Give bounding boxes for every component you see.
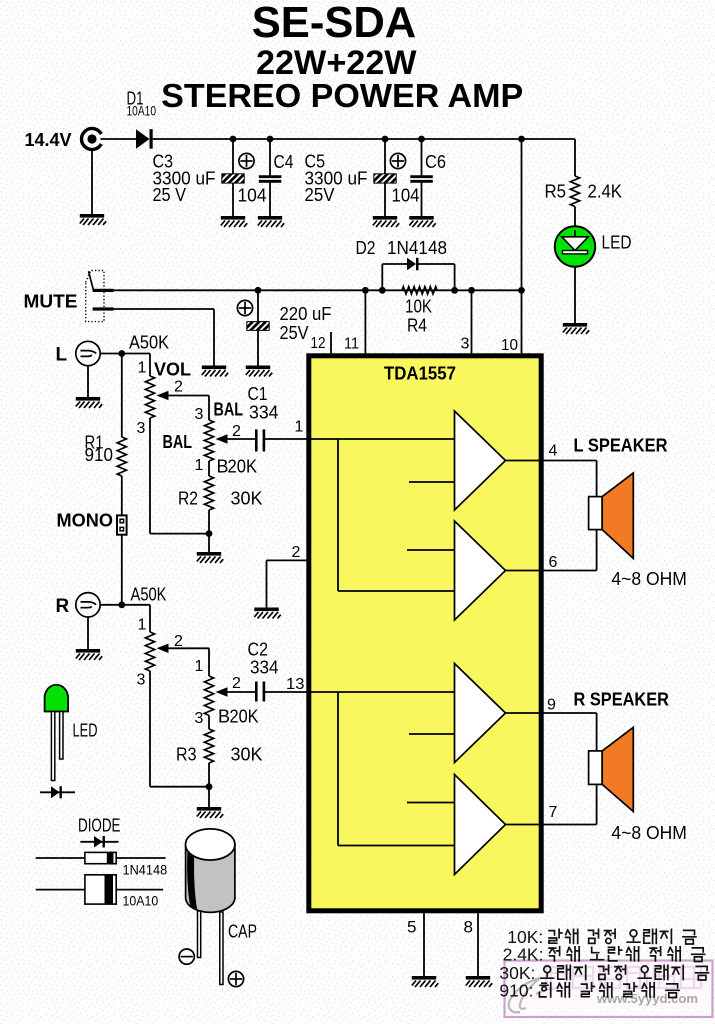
svg-text:1: 1 bbox=[195, 658, 204, 675]
svg-text:1: 1 bbox=[195, 457, 204, 474]
wire D2 to node bbox=[419, 263, 455, 265]
wire mute line bbox=[114, 289, 522, 291]
wire D1 to C3 node bbox=[153, 138, 233, 140]
svg-text:R4: R4 bbox=[407, 316, 427, 336]
ground L jack bbox=[76, 397, 102, 408]
plus mark 220uF bbox=[237, 300, 252, 315]
wire node to ground bbox=[208, 787, 210, 807]
plus mark CAP bbox=[228, 971, 243, 986]
ground at 14.4V jack bbox=[80, 214, 106, 225]
wire mute lower bbox=[114, 308, 214, 310]
connector R jack bbox=[76, 593, 100, 617]
wire C2 to pin13 bbox=[264, 691, 311, 693]
wire pin 10 to rail bbox=[521, 139, 523, 353]
svg-text:R5: R5 bbox=[545, 182, 567, 202]
resistor R5 bbox=[570, 176, 579, 207]
svg-text:SE-SDA: SE-SDA bbox=[252, 0, 417, 47]
wire jack ground lead bbox=[91, 151, 93, 214]
capacitor C4 plate1 bbox=[259, 175, 282, 178]
svg-text:20K: 20K bbox=[228, 457, 258, 477]
svg-text:10K: 10K bbox=[405, 297, 432, 317]
wire R5 to LED bbox=[574, 207, 576, 228]
svg-text:3: 3 bbox=[195, 406, 204, 423]
capacitor CAP stripe bbox=[187, 850, 197, 911]
svg-text:R: R bbox=[56, 596, 70, 617]
ground pin 5 bbox=[412, 976, 438, 987]
capacitor C2 plate2 bbox=[263, 682, 266, 702]
svg-text:4~8 OHM: 4~8 OHM bbox=[611, 569, 687, 589]
connector L jack bbox=[76, 341, 100, 365]
svg-text:2.4K: 2.4K bbox=[588, 182, 623, 202]
node L/mono bbox=[118, 350, 125, 357]
svg-text:12: 12 bbox=[311, 335, 326, 352]
wire wiper to BAL R bbox=[208, 648, 210, 676]
svg-text:2: 2 bbox=[232, 675, 241, 692]
potentiometer BAL B20K R bbox=[204, 676, 213, 715]
LED D3 triangle bbox=[562, 237, 588, 251]
svg-text:B: B bbox=[218, 707, 230, 727]
wire D2 left leg bbox=[381, 264, 383, 290]
wire pin 3 bbox=[471, 290, 473, 353]
wire D2 right leg bbox=[454, 264, 456, 290]
wire rail to R5 bbox=[574, 139, 576, 176]
wire pin 8 to ground bbox=[477, 913, 479, 976]
wire R3 to node bbox=[208, 763, 210, 787]
diode D2 bbox=[407, 258, 416, 270]
svg-text:TDA1557: TDA1557 bbox=[384, 364, 456, 384]
wire jack to D1 bbox=[101, 138, 137, 140]
speaker R magnet bbox=[589, 751, 603, 785]
capacitor C1 plate1 bbox=[255, 429, 258, 451]
potentiometer VOL A50K bbox=[145, 376, 154, 418]
svg-text:R3: R3 bbox=[176, 745, 197, 765]
svg-text:6: 6 bbox=[549, 554, 558, 571]
wire pin 2 bbox=[267, 559, 307, 561]
capacitor CAP body bbox=[186, 845, 235, 913]
svg-text:25V: 25V bbox=[305, 185, 335, 205]
connector J1 14.4V bbox=[81, 129, 101, 150]
node pin10/mute bbox=[518, 287, 525, 294]
jumper pin a bbox=[119, 519, 124, 524]
svg-text:1: 1 bbox=[138, 360, 147, 377]
watermark swirl bbox=[509, 978, 566, 1012]
wire C1 to pin1 bbox=[264, 438, 311, 440]
svg-text:30K: 30K bbox=[231, 489, 263, 509]
wire BAL to R2 bbox=[208, 461, 210, 476]
svg-text:LED: LED bbox=[73, 721, 98, 741]
wire C6 top lead bbox=[421, 139, 423, 176]
svg-text:1N4148: 1N4148 bbox=[123, 862, 168, 878]
LED leg long bbox=[51, 712, 54, 781]
ground 220uF bbox=[246, 366, 272, 377]
ground L pot bbox=[197, 552, 223, 563]
svg-text:334: 334 bbox=[249, 403, 279, 423]
svg-text:VOL: VOL bbox=[154, 360, 191, 380]
svg-text:2: 2 bbox=[232, 423, 241, 440]
svg-text:1: 1 bbox=[138, 617, 147, 634]
wire amp1-amp2 branch bbox=[337, 439, 339, 591]
capacitor C5 bbox=[374, 174, 396, 183]
CAP leg plus bbox=[220, 912, 223, 985]
wiper BAL R bbox=[216, 687, 228, 696]
switch SW1 lever bbox=[89, 271, 94, 290]
wire L jack ground lead bbox=[87, 366, 89, 397]
wire 1N4148 leads bbox=[36, 857, 166, 859]
jumper MONO body bbox=[117, 515, 127, 534]
jumper pin b bbox=[119, 527, 124, 532]
svg-text:30K: 30K bbox=[231, 745, 263, 765]
op-amp triangle out y=713 bbox=[455, 664, 506, 763]
wire amp1 stub bbox=[409, 481, 455, 483]
svg-text:3: 3 bbox=[461, 336, 470, 353]
wire pin6 to L speaker bbox=[544, 570, 597, 572]
wire R speaker top bbox=[596, 713, 598, 751]
resistor R4 bbox=[402, 287, 437, 295]
wire L speaker bottom bbox=[596, 530, 598, 571]
wiper BAL L bbox=[216, 434, 228, 443]
svg-text:10: 10 bbox=[501, 337, 518, 354]
wire R1 to jumper bbox=[121, 476, 123, 515]
svg-text:8: 8 bbox=[464, 918, 473, 937]
diode LED polarity symbol bbox=[51, 786, 60, 798]
connector R jack tip bbox=[81, 602, 97, 608]
watermark box bbox=[505, 961, 713, 1018]
svg-text:L: L bbox=[56, 345, 68, 366]
svg-text:22W+22W: 22W+22W bbox=[256, 44, 417, 82]
node pin3 bbox=[468, 287, 475, 294]
wire C6 bottom lead bbox=[421, 183, 423, 217]
svg-text:10A10: 10A10 bbox=[123, 893, 159, 909]
wire C4 top lead bbox=[269, 139, 271, 176]
wire pin13 input to amp3 bbox=[311, 691, 455, 693]
node pin11 bbox=[362, 287, 369, 294]
wire pin 5 to ground bbox=[423, 913, 425, 976]
wire C5 top lead bbox=[384, 139, 386, 174]
resistor R2 bbox=[204, 476, 213, 510]
svg-text:104: 104 bbox=[392, 186, 420, 206]
svg-text:13: 13 bbox=[286, 676, 305, 693]
wire R speaker bottom bbox=[596, 784, 598, 824]
capacitor C4 plate2 bbox=[259, 180, 282, 183]
wire pin9 to R speaker bbox=[544, 712, 597, 714]
wire pin 11 bbox=[364, 290, 366, 353]
capacitor C6 plate2 bbox=[410, 180, 433, 183]
op-amp triangle out y=570.5 bbox=[455, 521, 506, 620]
ground mute bbox=[202, 366, 228, 377]
diode 10A10 body bbox=[85, 875, 116, 904]
wire jumper to R node bbox=[121, 535, 123, 605]
ground pin 2 bbox=[254, 608, 280, 619]
svg-text:910:: 910: bbox=[499, 981, 533, 1001]
svg-text:2: 2 bbox=[174, 633, 183, 650]
wire C4 bottom lead bbox=[269, 183, 271, 217]
wire pin1 input to amp1 bbox=[311, 438, 455, 440]
wire pot R pin3 down bbox=[149, 671, 151, 787]
wire R2 to node bbox=[208, 510, 210, 534]
watermark cjk marks bbox=[546, 967, 566, 988]
LED D3 cathode bar bbox=[563, 251, 588, 254]
op-amp triangle out y=460.5 bbox=[455, 411, 506, 510]
svg-text:9: 9 bbox=[547, 697, 556, 714]
diode 1N4148 band bbox=[107, 852, 114, 863]
svg-text:14.4V: 14.4V bbox=[25, 130, 72, 150]
wire to D2 bbox=[382, 263, 407, 265]
svg-text:1: 1 bbox=[295, 419, 304, 436]
svg-text:220 uF: 220 uF bbox=[280, 304, 332, 324]
op-amp U1 TDA1557 body bbox=[309, 356, 541, 911]
wire amp2 out pin6 bbox=[506, 570, 544, 572]
plus mark C5 bbox=[390, 153, 405, 168]
wire amp2 stub bbox=[407, 549, 455, 551]
wire BAL R to R3 bbox=[208, 715, 210, 729]
wire 220uF top lead bbox=[257, 290, 259, 321]
resistor R1 bbox=[117, 437, 126, 476]
svg-text:3: 3 bbox=[195, 710, 204, 727]
CAP leg minus bbox=[198, 911, 201, 958]
wire C3 top lead bbox=[232, 139, 234, 174]
wire top supply rail bbox=[233, 138, 575, 140]
node R2/VOL3 bbox=[206, 530, 213, 537]
wire branch to amp4 bbox=[338, 845, 455, 847]
wire to VOL pot bbox=[149, 354, 151, 377]
ground R pot bbox=[197, 807, 223, 818]
svg-text:C1: C1 bbox=[248, 384, 268, 404]
LED D3 body bbox=[555, 226, 595, 266]
op-amp triangle out y=824.5 bbox=[455, 775, 506, 875]
svg-text:4: 4 bbox=[549, 443, 558, 460]
svg-text:R SPEAKER: R SPEAKER bbox=[574, 690, 670, 710]
svg-text:C2: C2 bbox=[248, 640, 269, 660]
LED leg short bbox=[60, 712, 63, 760]
svg-text:4~8 OHM: 4~8 OHM bbox=[611, 823, 687, 843]
minus mark CAP bbox=[179, 949, 194, 964]
node D2 left bbox=[379, 287, 386, 294]
capacitor C2 plate1 bbox=[255, 682, 258, 702]
svg-text:DIODE: DIODE bbox=[78, 816, 121, 836]
svg-text:104: 104 bbox=[238, 186, 267, 206]
wire pin 12 stub bbox=[330, 332, 332, 353]
node R3/pot3 bbox=[206, 783, 213, 790]
plus mark C3 bbox=[239, 153, 254, 168]
ground R jack bbox=[76, 649, 102, 660]
ground C3 bbox=[221, 216, 247, 227]
wire R jack ground lead bbox=[87, 617, 89, 649]
wire L jack out bbox=[100, 353, 150, 355]
wire L speaker top bbox=[596, 461, 598, 497]
svg-text:2: 2 bbox=[174, 379, 183, 396]
svg-text:7: 7 bbox=[549, 804, 558, 821]
speaker R cone bbox=[602, 727, 633, 811]
wire node to ground bbox=[208, 534, 210, 552]
wire 220uF bottom lead bbox=[257, 330, 259, 365]
wire VOL3 to node bbox=[150, 533, 209, 535]
svg-text:2: 2 bbox=[292, 544, 301, 561]
wire amp3-amp4 branch bbox=[337, 692, 339, 846]
wire amp4 out pin7 bbox=[506, 824, 544, 826]
wire branch to amp2 bbox=[338, 590, 455, 592]
capacitor 220uF bbox=[247, 322, 269, 331]
svg-text:BAL: BAL bbox=[163, 432, 193, 452]
switch SW1 bottom contact bbox=[93, 307, 114, 310]
capacitor C1 plate2 bbox=[263, 429, 266, 451]
ground pin 8 bbox=[466, 976, 492, 987]
svg-text:3: 3 bbox=[137, 672, 146, 689]
ground LED bbox=[563, 323, 589, 334]
node R/mono bbox=[118, 601, 125, 608]
wire mute lower to ground bbox=[213, 309, 215, 366]
node mute/220uF bbox=[255, 287, 262, 294]
svg-text:L SPEAKER: L SPEAKER bbox=[574, 436, 668, 456]
switch SW1 top contact bbox=[93, 289, 114, 292]
wire amp1 out pin4 bbox=[506, 460, 544, 462]
wire 10A10 leads bbox=[36, 889, 164, 891]
svg-text:A50K: A50K bbox=[131, 585, 167, 605]
wire amp3 stub bbox=[409, 733, 455, 735]
potentiometer A50K R bbox=[145, 632, 154, 671]
ground C5 bbox=[373, 216, 399, 227]
svg-text:A50K: A50K bbox=[129, 333, 169, 353]
resistor R3 bbox=[204, 729, 213, 763]
capacitor C6 plate1 bbox=[410, 175, 433, 178]
svg-text:2.4K:: 2.4K: bbox=[503, 945, 544, 965]
wire amp4 stub bbox=[407, 802, 455, 804]
wire mono link upper bbox=[121, 354, 123, 438]
diode symbol small bbox=[94, 836, 103, 848]
svg-text:C4: C4 bbox=[274, 152, 294, 172]
svg-text:STEREO POWER AMP: STEREO POWER AMP bbox=[161, 78, 523, 115]
svg-text:D2: D2 bbox=[356, 238, 376, 258]
svg-text:3: 3 bbox=[137, 420, 146, 437]
svg-text:11: 11 bbox=[344, 336, 359, 353]
svg-text:BAL: BAL bbox=[214, 400, 244, 420]
wiper pot R bbox=[157, 644, 169, 653]
capacitor CAP top bbox=[186, 829, 235, 860]
diode D1 bbox=[136, 129, 150, 149]
svg-text:334: 334 bbox=[250, 658, 279, 678]
speaker L cone bbox=[602, 473, 633, 558]
svg-text:LED: LED bbox=[602, 233, 632, 253]
wire amp3 out pin9 bbox=[506, 712, 544, 714]
wire to R pot bbox=[149, 605, 151, 632]
svg-text:25V: 25V bbox=[280, 323, 309, 343]
wire LED polarity bbox=[40, 791, 75, 793]
wire pot3 to node bbox=[150, 786, 209, 788]
wiper VOL bbox=[157, 391, 169, 400]
wire C3 bottom lead bbox=[232, 183, 234, 216]
wire pin7 to R speaker bbox=[544, 824, 597, 826]
svg-text:5: 5 bbox=[407, 918, 416, 937]
svg-text:910: 910 bbox=[85, 445, 114, 465]
node D2 right bbox=[451, 287, 458, 294]
svg-text:C6: C6 bbox=[425, 152, 446, 172]
svg-text:1N4148: 1N4148 bbox=[387, 238, 447, 258]
potentiometer BAL B20K L bbox=[204, 420, 213, 461]
diode 1N4148 body bbox=[85, 852, 116, 863]
diode 10A10 band bbox=[105, 875, 114, 904]
wire R jack out bbox=[100, 604, 150, 606]
ground C4 bbox=[258, 216, 284, 227]
wire VOL pin3 down bbox=[149, 418, 151, 534]
svg-text:R2: R2 bbox=[178, 489, 198, 509]
wire LED to ground bbox=[574, 267, 576, 323]
svg-text:20K: 20K bbox=[230, 707, 259, 727]
wire C5 bottom lead bbox=[384, 183, 386, 216]
svg-text:10A10: 10A10 bbox=[127, 104, 157, 119]
switch SW1 outline bbox=[86, 271, 104, 322]
svg-text:CAP: CAP bbox=[228, 922, 257, 942]
wire pin4 to L speaker bbox=[544, 460, 597, 462]
wire pin 2 down bbox=[266, 560, 268, 607]
wire VOL wiper to BAL bbox=[208, 396, 210, 421]
svg-text:MUTE: MUTE bbox=[24, 292, 78, 312]
capacitor C3 bbox=[222, 174, 244, 183]
svg-text:25 V: 25 V bbox=[153, 185, 187, 205]
ground C6 bbox=[409, 216, 435, 227]
svg-text:MONO: MONO bbox=[57, 511, 114, 531]
speaker L magnet bbox=[589, 497, 603, 530]
wire diode symbol bbox=[80, 841, 118, 843]
connector L jack tip bbox=[81, 351, 97, 357]
LED component body bbox=[45, 685, 69, 712]
